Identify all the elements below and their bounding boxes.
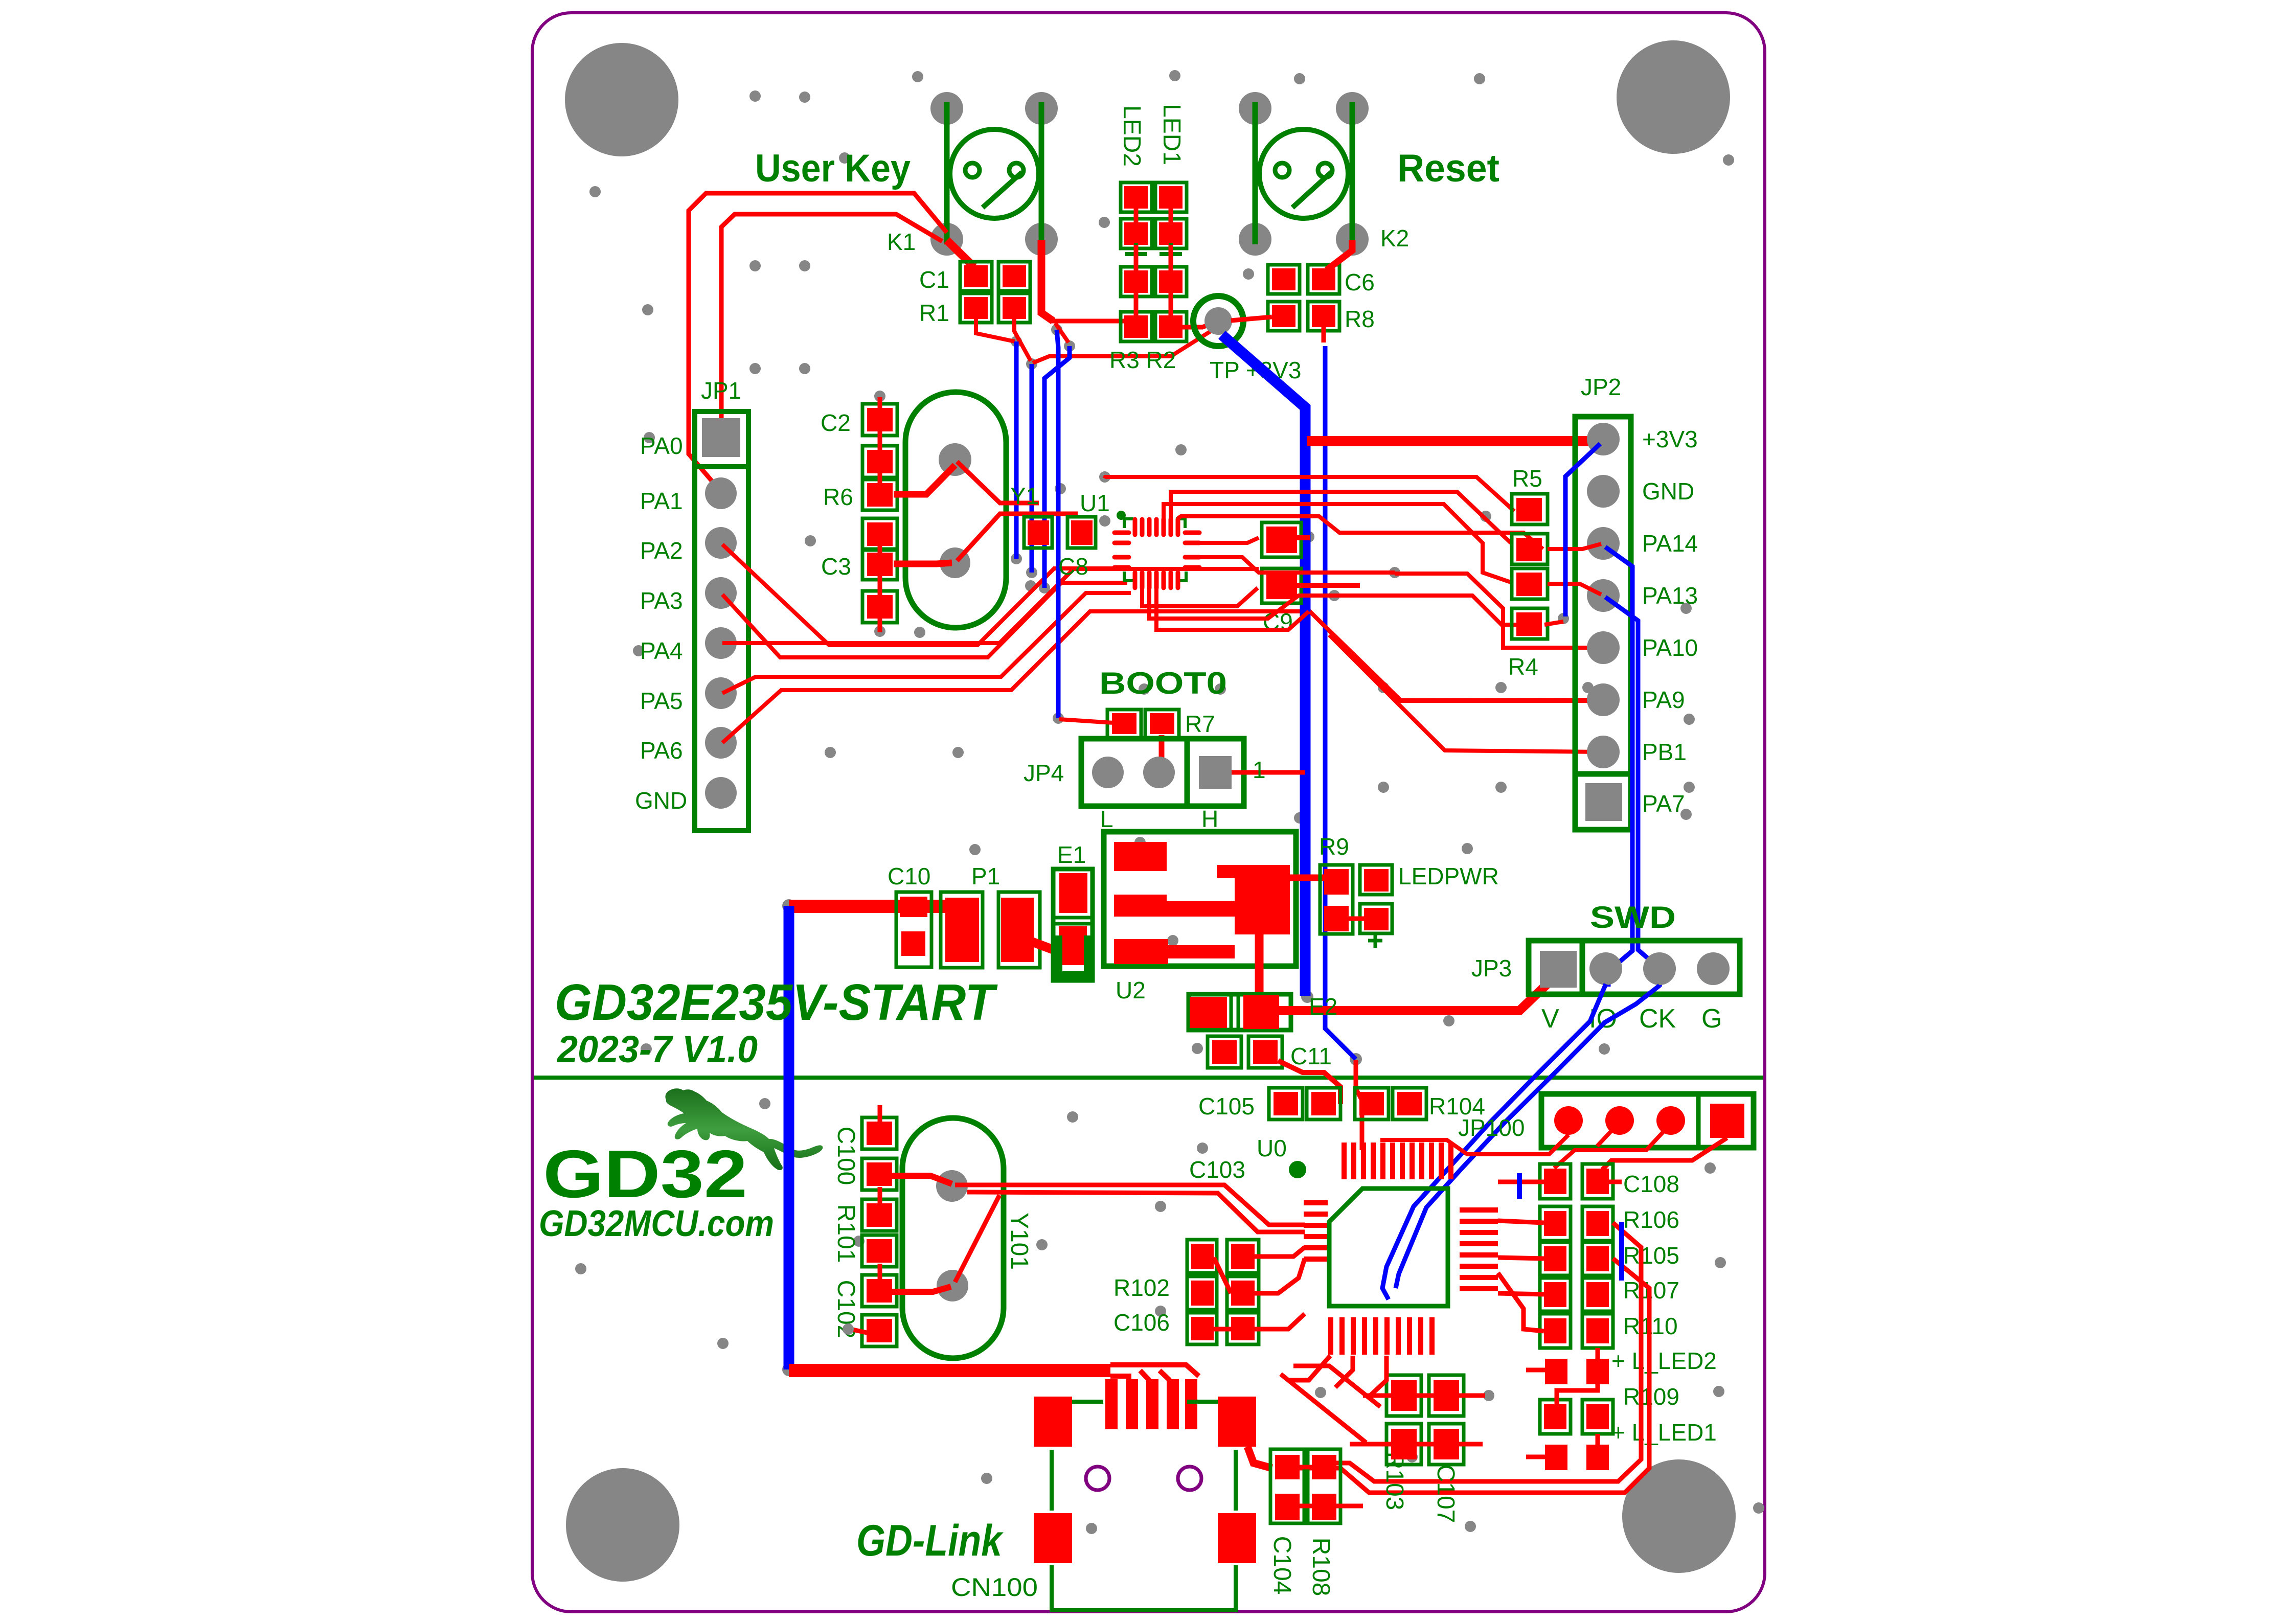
svg-text:CK: CK (1639, 1004, 1676, 1034)
wire PA6 trace (722, 611, 1591, 743)
svg-text:SWD: SWD (1590, 900, 1676, 934)
wire R6 to Y1 top pad (894, 465, 955, 494)
capacitor C3 pad2 (862, 591, 897, 623)
svg-text:GD-Link: GD-Link (856, 1516, 1004, 1565)
wire R9 to LEDPWR (1349, 917, 1364, 921)
capacitor C105 pads (1198, 1088, 1340, 1120)
transistor U0 dot (1289, 1161, 1306, 1178)
LED L_LED1 pads (1545, 1419, 1717, 1470)
capacitor C1 (919, 262, 1030, 293)
svg-text:R7: R7 (1185, 711, 1215, 737)
wire fanout to PA10 (1334, 596, 1601, 648)
svg-text:JP3: JP3 (1471, 955, 1512, 981)
crystal Y1 pad top (939, 443, 971, 476)
wire C108 column links (1498, 1182, 1622, 1457)
svg-text:K2: K2 (1380, 225, 1409, 252)
resistor R9 (1319, 833, 1353, 934)
LED L_LED2 pads (1545, 1347, 1717, 1384)
svg-text:R101: R101 (832, 1204, 859, 1263)
resistor R8 (1268, 302, 1375, 332)
capacitor E2 (1189, 994, 1291, 1030)
capacitor C10 (888, 863, 931, 967)
header JP2 (1575, 374, 1631, 830)
svg-text:1: 1 (1253, 757, 1266, 783)
svg-text:GND: GND (635, 787, 687, 814)
resistor R7 (1107, 710, 1215, 738)
wire Y101 top pad to U100 B (967, 1192, 1305, 1232)
mounting hole top-left (565, 43, 678, 156)
wire C2 column stubs (878, 397, 882, 632)
capacitor C108 pads (1540, 1164, 1679, 1199)
crystal Y1 pad bottom (940, 547, 970, 578)
pushbutton K1 (User Key) (930, 92, 1058, 256)
wire U1 fanout f2 (1171, 492, 1511, 543)
mounting hole bottom-left (566, 1468, 679, 1582)
silkscreen section separator line (534, 1076, 1763, 1080)
svg-text:V: V (1541, 1004, 1559, 1034)
svg-text:C6: C6 (1345, 269, 1375, 295)
svg-text:JP4: JP4 (1024, 760, 1064, 786)
wire blue SWD to U100 A (1382, 984, 1606, 1299)
resistor R109 pads (1540, 1383, 1679, 1434)
wire Y101 bottom pad diagonal (955, 1195, 999, 1282)
mounting hole top-right (1617, 40, 1730, 154)
LED LED1 pads (1155, 182, 1187, 248)
svg-text:PA10: PA10 (1642, 634, 1698, 661)
crystal Y101 pad top (936, 1170, 968, 1202)
resistor R104 pads (1355, 1088, 1485, 1120)
svg-text:GD32: GD32 (543, 1136, 747, 1212)
wire K1 to JP1 PA0 inner trace (721, 214, 942, 420)
wire Y1 top pad right (957, 462, 1039, 503)
svg-text:JP2: JP2 (1581, 374, 1621, 400)
wire K1 pad to C1 fillet (947, 240, 974, 267)
svg-text:C107: C107 (1432, 1465, 1459, 1523)
svg-text:R108: R108 (1307, 1538, 1334, 1596)
svg-text:C2: C2 (821, 409, 851, 436)
resistor R4 pads (1508, 568, 1548, 680)
svg-text:PA0: PA0 (640, 432, 683, 459)
resistor R2 pads (1155, 267, 1187, 341)
svg-text:Y101: Y101 (1006, 1213, 1033, 1270)
wire red thick bottom rail (789, 1364, 1110, 1377)
svg-text:U0: U0 (1257, 1135, 1287, 1161)
wire PA4 trace (722, 569, 1259, 643)
wire bottom rail to USB (1110, 1365, 1199, 1380)
wire TP to R8 (1231, 317, 1272, 321)
wire R5 pad3 to PA13 (1548, 584, 1601, 595)
wire via to R7 (1059, 719, 1113, 723)
wire U2 to R9 (1290, 875, 1325, 881)
svg-text:+ L_LED1: + L_LED1 (1611, 1419, 1717, 1446)
svg-text:E2: E2 (1309, 993, 1337, 1020)
wire CN100 to C104 (1247, 1447, 1272, 1468)
regulator U2 (1104, 832, 1296, 1003)
wire R7 to JP4 pin (1159, 735, 1162, 767)
resistor R101 pads (862, 1199, 897, 1267)
resistor R3 pads (1121, 267, 1152, 341)
capacitor C6 (1268, 265, 1375, 295)
wire E2 to JP3 thick (1279, 977, 1554, 1011)
svg-text:PA7: PA7 (1642, 790, 1685, 817)
wire R2 bottom to TP (1183, 321, 1218, 327)
svg-text:R4: R4 (1508, 653, 1538, 680)
capacitor C2 pad2 / resistor R6 pads (823, 446, 897, 510)
wire C100 column stubs (850, 1105, 880, 1333)
wire U1 fanout f3 (1164, 504, 1512, 583)
svg-text:C8: C8 (1058, 553, 1088, 580)
wire fanout to R4 (1395, 574, 1519, 625)
LED polarity marks (1125, 243, 1182, 265)
wire blue L2 (1030, 364, 1034, 573)
svg-text:R9: R9 (1319, 833, 1349, 860)
wire blue L1 (1014, 341, 1019, 559)
wire U100 bottom to USB diagonals (1288, 1356, 1386, 1396)
wire blue SWD to U100 B (1396, 986, 1660, 1288)
capacitor P1 pad1 (941, 892, 983, 968)
wire PB1 trace (1329, 635, 1601, 752)
header JP100 (1458, 1094, 1754, 1148)
wire C9 bottom pad right (1297, 583, 1360, 588)
svg-text:BOOT0: BOOT0 (1099, 666, 1227, 700)
svg-text:C106: C106 (1113, 1309, 1170, 1336)
pushbutton K2 (Reset) (1239, 92, 1369, 256)
svg-text:G: G (1701, 1004, 1722, 1034)
wire U1 fanout f8 (1149, 589, 1334, 619)
crystal Y101 pad bottom (937, 1270, 968, 1301)
svg-text:C104: C104 (1268, 1536, 1295, 1595)
wire blue thick left vertical (784, 906, 794, 1369)
resistor R5 pads (1512, 465, 1548, 564)
connector CN100 holes (1086, 1467, 1109, 1490)
LED LEDPWR (1360, 863, 1499, 948)
svg-text:C105: C105 (1198, 1093, 1255, 1120)
svg-text:R5: R5 (1512, 465, 1542, 492)
connector CN100 signal pins (1105, 1379, 1197, 1429)
wire K1 to JP1 PA0 outer trace (689, 193, 947, 487)
svg-text:PA3: PA3 (640, 587, 683, 614)
wire K1 right pad down (1041, 240, 1053, 321)
wire U1 fanout f1 (1105, 477, 1514, 511)
wire R101 to Y101 top pad (892, 1176, 952, 1184)
svg-text:PA1: PA1 (640, 488, 683, 514)
wire blue L3 (1044, 346, 1070, 588)
svg-text:R106: R106 (1623, 1206, 1679, 1233)
header JP4 (1024, 739, 1244, 806)
svg-text:LEDPWR: LEDPWR (1398, 863, 1499, 889)
wire fanout to PA9 (1310, 611, 1601, 700)
svg-text:C103: C103 (1189, 1156, 1245, 1183)
wire R1 left pad to via (976, 319, 1015, 341)
resistor R1 (919, 293, 1030, 326)
svg-text:LED2: LED2 (1118, 105, 1145, 167)
svg-text:R102: R102 (1113, 1274, 1170, 1301)
op-amp U1 corner marks (1124, 519, 1186, 581)
connector CN100 pad top-left (1034, 1397, 1072, 1447)
wire JP100 pin traces (1380, 1135, 1568, 1154)
op-amp U1 footprint pin1 dot (1117, 511, 1126, 520)
wire C102 to Y101 bottom pad (892, 1287, 951, 1292)
svg-text:Y1: Y1 (1010, 483, 1039, 509)
wire right vertical pair B (1288, 1259, 1649, 1493)
svg-text:+ L_LED2: + L_LED2 (1611, 1347, 1717, 1374)
wire blue thick TP to E2 (1222, 335, 1305, 996)
resistor R108 (1308, 1449, 1340, 1523)
wire K2 pad to C6 (1327, 240, 1352, 270)
svg-text:U1: U1 (1080, 490, 1110, 516)
connector CN100 pad bottom-left (1034, 1513, 1072, 1563)
GD32 jaguar logo (665, 1088, 823, 1170)
svg-text:User Key: User Key (755, 147, 911, 190)
wire blue R8 via down (1325, 346, 1356, 1059)
capacitor C102 pads (862, 1275, 897, 1346)
mcu U100 left pin column (1304, 1200, 1328, 1262)
wire diagonal pair to R103 (1281, 1366, 1380, 1443)
svg-text:U2: U2 (1116, 977, 1146, 1003)
capacitor C11 (1208, 1036, 1332, 1069)
wire U1 fanout f4 (1178, 516, 1543, 549)
svg-text:2023-7 V1.0: 2023-7 V1.0 (556, 1028, 758, 1070)
op-amp U1 side pads (1115, 533, 1199, 567)
wire R5 pad2 to PA14 (1548, 544, 1601, 549)
svg-text:C11: C11 (1290, 1043, 1332, 1069)
wire PA5 trace (722, 593, 1131, 693)
capacitor C100 pads (862, 1117, 897, 1190)
svg-text:C3: C3 (821, 553, 851, 580)
wire U1 fanout f6 (1199, 557, 1395, 573)
svg-text:PA14: PA14 (1642, 530, 1698, 557)
op-amp U1 top pad row (1135, 519, 1178, 535)
wire C9 top pad to via (1297, 535, 1310, 540)
wire P1 to E1 (1032, 942, 1088, 949)
wire Y1 bottom pad right (957, 514, 1078, 561)
crystal Y1 smd pad right (1067, 517, 1096, 548)
wire JP4 H pad to blue via (1232, 770, 1305, 775)
wire via to U0 (1356, 1060, 1362, 1150)
svg-text:C10: C10 (888, 863, 930, 889)
svg-text:GND: GND (1642, 478, 1694, 505)
wire U2 out stem (1255, 934, 1264, 997)
svg-text:Reset: Reset (1397, 147, 1499, 190)
svg-text:PA9: PA9 (1642, 687, 1685, 713)
svg-text:PA4: PA4 (640, 637, 683, 664)
resistor R107 pads (1540, 1277, 1679, 1311)
crystal Y1 smd pad left (1024, 517, 1052, 548)
wire blue PA14 to SWD IO (1605, 547, 1632, 987)
wire C3 to Y1 bottom pad (894, 563, 952, 564)
svg-text:GD32E235V-START: GD32E235V-START (555, 974, 998, 1031)
svg-text:C1: C1 (919, 266, 949, 293)
svg-text:R8: R8 (1345, 306, 1375, 332)
wire right vertical pair A (1324, 1223, 1641, 1481)
wire R103 links (1350, 1396, 1485, 1444)
capacitor P1 pad2 (971, 863, 1040, 968)
svg-text:C108: C108 (1623, 1171, 1679, 1197)
svg-text:R3 R2: R3 R2 (1109, 347, 1176, 373)
connector CN100 pad top-right (1218, 1397, 1256, 1447)
wire red thick +3V3 to JP2 (1307, 436, 1596, 446)
svg-text:R105: R105 (1623, 1242, 1679, 1269)
header JP3 (SWD) (1471, 941, 1740, 994)
wire JP100 pin4 trace (1602, 1138, 1727, 1170)
wire LED column stubs (1136, 209, 1171, 315)
svg-text:E1: E1 (1057, 841, 1086, 868)
svg-text:PA2: PA2 (640, 537, 683, 564)
svg-text:LED1: LED1 (1158, 104, 1185, 165)
wire R1 right pad to via (1014, 319, 1031, 361)
capacitor C106 pads (1113, 1309, 1259, 1344)
wire blue PA13 to SWD CK (1605, 597, 1662, 987)
crystal Y101 courtyard (902, 1118, 1004, 1358)
svg-text:JP100: JP100 (1458, 1114, 1525, 1141)
wire R102 cross traces (1214, 1247, 1305, 1329)
resistor R106 pads (1540, 1206, 1679, 1241)
svg-text:JP1: JP1 (701, 377, 741, 404)
resistor R103 pads (1386, 1375, 1464, 1416)
wire U1 fanout f5 (1199, 538, 1259, 543)
svg-text:H: H (1201, 806, 1218, 832)
mcu U100 bottom pin row (1328, 1317, 1435, 1355)
wire via row to R3 pad (1055, 323, 1069, 342)
resistor R110 pads (1540, 1313, 1678, 1348)
resistor R6 pad2 / capacitor C3 pads (821, 518, 897, 580)
wire blue stub near C108 (1517, 1173, 1522, 1199)
connector CN100 outline (1052, 1402, 1236, 1610)
svg-text:C100: C100 (832, 1127, 859, 1185)
wire U1 fanout f9 (1156, 589, 1309, 630)
capacitor C9 pad bottom (1262, 568, 1301, 603)
svg-text:PA6: PA6 (640, 737, 683, 764)
wire R4 pad to via (1544, 622, 1563, 625)
wire blue JP2 +3V3 down (1565, 444, 1600, 616)
svg-text:L: L (1100, 806, 1113, 832)
crystal Y1 courtyard (905, 392, 1006, 628)
wire U1 fanout f7 (1142, 588, 1258, 606)
header JP1 (695, 377, 748, 831)
svg-text:GD32MCU.com: GD32MCU.com (539, 1203, 774, 1244)
wire blue L4 (1057, 330, 1058, 718)
svg-text:CN100: CN100 (951, 1573, 1038, 1602)
mounting hole bottom-right (1622, 1459, 1736, 1573)
mcu U100 outline (1329, 1189, 1448, 1306)
mcu U100 top pin row (1342, 1143, 1453, 1179)
capacitor C104 (1270, 1449, 1304, 1523)
wire red thick regulator input (789, 900, 950, 913)
svg-text:R1: R1 (919, 300, 949, 326)
svg-text:PA13: PA13 (1642, 582, 1698, 609)
svg-text:PA5: PA5 (640, 688, 683, 714)
vias (575, 70, 1764, 1539)
svg-text:PB1: PB1 (1642, 739, 1687, 765)
capacitor C2 (821, 404, 897, 436)
svg-text:R6: R6 (823, 484, 853, 510)
capacitor E1 (polarized) (1053, 841, 1093, 980)
op-amp U1 bottom pad row (1135, 573, 1178, 588)
wire R8 to via (1322, 327, 1326, 342)
wire blue short near R106 (1619, 1222, 1624, 1281)
svg-text:K1: K1 (887, 229, 916, 255)
resistor R105 pads (1540, 1242, 1679, 1275)
wire C11 to C105 (1278, 1061, 1340, 1104)
svg-text:P1: P1 (971, 863, 1000, 889)
capacitor C107 pads (1386, 1424, 1464, 1465)
connector CN100 pad bottom-right (1218, 1513, 1256, 1563)
wire C104 R108 links (1300, 1467, 1363, 1506)
wire Y101 top pad to U100 A (955, 1185, 1305, 1225)
testpoint TP (1193, 296, 1243, 346)
wire PA2 trace (722, 544, 1131, 645)
board outline (532, 13, 1765, 1612)
capacitor C9 pad top (1262, 522, 1301, 557)
resistor R102 pads (1113, 1240, 1259, 1310)
wire PA3 trace (722, 583, 1127, 657)
svg-text:+3V3: +3V3 (1642, 426, 1698, 452)
wire via B to TP lower route (1033, 331, 1211, 363)
LED LED2 pads (1121, 182, 1154, 248)
mcu U100 right pin column (1460, 1207, 1498, 1291)
